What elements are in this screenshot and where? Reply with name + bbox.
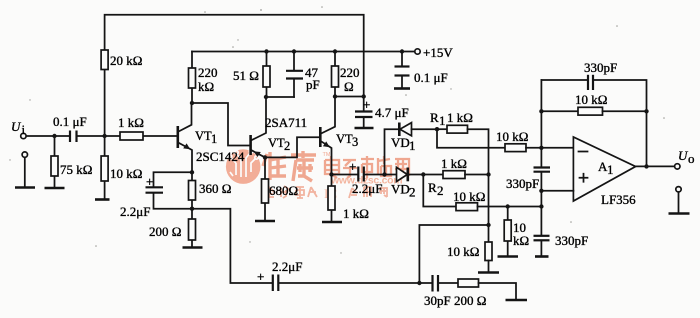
wire R1 node down to 10k row: [437, 129, 505, 148]
svg-text:10 kΩ: 10 kΩ: [110, 166, 142, 181]
VT1 emitter node: [190, 170, 194, 174]
capacitor 0.1uF 15V: [400, 49, 404, 53]
svg-text:VD: VD: [391, 135, 410, 150]
node VT3 emitter: [329, 172, 333, 176]
capacitor 2.2uF bottom: [272, 275, 274, 292]
node junction B: [102, 134, 106, 138]
svg-text:VT: VT: [195, 129, 212, 143]
resistor 680: [264, 157, 266, 220]
svg-text:2.2μF: 2.2μF: [272, 259, 302, 274]
svg-text:220: 220: [340, 65, 360, 80]
svg-text:+15V: +15V: [423, 45, 453, 60]
svg-text:4.7 μF: 4.7 μF: [375, 105, 409, 120]
feedback 330pF top: [540, 80, 542, 148]
terminal Uo bottom + ground: [676, 187, 681, 192]
wire +15V rail: [192, 51, 415, 53]
svg-text:330pF: 330pF: [555, 233, 588, 248]
svg-text:R: R: [430, 110, 439, 125]
svg-text:+: +: [146, 174, 153, 189]
ground input terminal: [15, 186, 35, 189]
svg-text:51 Ω: 51 Ω: [233, 68, 259, 83]
svg-text:2.2μF: 2.2μF: [352, 181, 382, 196]
svg-text:680Ω: 680Ω: [269, 183, 298, 198]
resistor 10k row3: [423, 175, 456, 207]
transistor VT2: [249, 135, 252, 155]
svg-text:0.1 μF: 0.1 μF: [53, 114, 87, 129]
op-amp A1: [573, 137, 635, 201]
svg-text:+: +: [257, 269, 264, 284]
svg-text:1: 1: [439, 113, 446, 128]
feedback 10k: [539, 109, 543, 113]
svg-text:kΩ: kΩ: [198, 79, 214, 94]
svg-text:+: +: [363, 97, 370, 112]
node VT2 emitter: [263, 155, 267, 159]
svg-text:10 kΩ: 10 kΩ: [447, 244, 479, 259]
svg-text:LF356: LF356: [601, 192, 636, 207]
svg-text:1 kΩ: 1 kΩ: [118, 115, 144, 130]
node VT1 collector: [190, 101, 194, 105]
svg-text:2SA711: 2SA711: [265, 115, 307, 130]
svg-text:2: 2: [437, 183, 444, 198]
resistor 1k VT3: [331, 175, 333, 222]
capacitor 47pF: [292, 49, 296, 53]
watermark: [226, 149, 409, 201]
svg-text:10 kΩ: 10 kΩ: [453, 189, 485, 204]
wire VT2 emitter to VT3 base: [265, 137, 319, 157]
resistor R2 1k row: [423, 174, 443, 176]
resistor 10k vertical x507: [507, 207, 509, 256]
svg-text:o: o: [688, 151, 695, 166]
svg-text:kΩ: kΩ: [513, 233, 529, 248]
svg-text:330pF: 330pF: [584, 60, 617, 75]
resistor 10k vertical x488: [485, 242, 492, 261]
ground 680: [255, 220, 275, 223]
ground 200 ohm: [183, 246, 203, 249]
resistor 20k: [104, 50, 106, 69]
svg-text:pF: pF: [306, 77, 320, 92]
svg-text:2: 2: [284, 139, 290, 153]
svg-text:VT: VT: [336, 132, 353, 146]
output wire: [636, 165, 675, 167]
scan speckles: [9, 6, 665, 254]
terminal +15V: [415, 49, 420, 54]
svg-text:2: 2: [409, 185, 416, 200]
capacitor 2.2uF mid: [357, 167, 359, 182]
svg-text:1: 1: [211, 132, 217, 146]
node junction A: [52, 134, 56, 138]
svg-text:10 kΩ: 10 kΩ: [575, 92, 607, 107]
transistor VT1: [177, 126, 180, 148]
resistor 51: [266, 52, 268, 98]
resistor 200: [191, 209, 193, 247]
svg-text:1: 1: [607, 162, 614, 177]
svg-text:1 kΩ: 1 kΩ: [447, 110, 473, 125]
ground 75k: [45, 187, 65, 190]
ground 10k input: [95, 198, 110, 201]
terminal Ui top: [21, 133, 26, 138]
svg-text:360 Ω: 360 Ω: [199, 181, 231, 196]
svg-text:75 kΩ: 75 kΩ: [60, 162, 92, 177]
svg-text:Ω: Ω: [344, 79, 354, 94]
resistor 10k to minus: [505, 144, 526, 152]
capacitor 2.2uF left: [154, 172, 193, 208]
resistor 200 bottom: [458, 279, 479, 287]
svg-text:20 kΩ: 20 kΩ: [110, 53, 142, 68]
svg-text:VD: VD: [391, 182, 410, 197]
plus input wire: [541, 190, 573, 192]
wire collector to VT2 base: [192, 103, 249, 146]
svg-text:0.1 μF: 0.1 μF: [414, 70, 448, 85]
svg-text:200 Ω: 200 Ω: [149, 224, 181, 239]
capacitor 30pF: [419, 282, 431, 284]
capacitor 330pF mid: [540, 148, 542, 191]
svg-text:1: 1: [409, 138, 416, 153]
svg-text:10 kΩ: 10 kΩ: [496, 129, 528, 144]
svg-text:3: 3: [352, 135, 358, 149]
wire mid row emitter follower out: [332, 174, 358, 176]
transistor VT3: [319, 127, 322, 147]
bottom feedback wire: [192, 209, 272, 283]
ground 200 ohm bottom: [506, 299, 528, 302]
svg-text:TM: TM: [323, 152, 331, 158]
capacitor 4.7uF: [363, 97, 365, 128]
svg-text:+: +: [349, 159, 356, 174]
wire top bootstrap rail: [105, 15, 364, 136]
node B row: [333, 94, 337, 98]
svg-text:i: i: [22, 122, 26, 137]
svg-text:330pF: 330pF: [506, 176, 539, 191]
resistor 220: [333, 49, 337, 53]
svg-text:U: U: [11, 119, 22, 134]
ground 10k vertical x507: [498, 255, 519, 258]
ground 1k VT3: [322, 221, 342, 224]
node input row wire: [26, 135, 69, 137]
node A collector VT2: [264, 95, 268, 99]
svg-text:1 kΩ: 1 kΩ: [343, 206, 369, 221]
resistor 220k: [191, 52, 193, 104]
svg-text:2.2μF: 2.2μF: [120, 204, 150, 219]
svg-text:30pF 200 Ω: 30pF 200 Ω: [424, 293, 486, 308]
svg-text:2SC1424: 2SC1424: [196, 149, 245, 164]
resistor 360: [191, 172, 193, 208]
capacitor 330pF bottom: [540, 207, 542, 256]
terminal Ui bottom + ground: [22, 152, 27, 157]
wire up to R network: [419, 225, 488, 283]
ground 330pF bottom: [535, 255, 549, 258]
resistor 10k input: [104, 136, 106, 198]
capacitor 0.1uF input: [69, 131, 71, 143]
resistor 1k input: [120, 132, 143, 140]
diode VD2: [385, 174, 396, 176]
diode VD1: [385, 129, 399, 174]
resistor 75k: [54, 136, 56, 187]
svg-text:220: 220: [198, 65, 218, 80]
ground 10k vertical x488: [478, 271, 499, 274]
svg-text:VT: VT: [268, 136, 285, 150]
svg-text:1 kΩ: 1 kΩ: [441, 156, 467, 171]
svg-text:R: R: [428, 180, 437, 195]
ground 0.1uF decoupling: [394, 87, 410, 90]
ground 4.7uF: [355, 127, 374, 130]
ground output terminal: [669, 212, 690, 215]
